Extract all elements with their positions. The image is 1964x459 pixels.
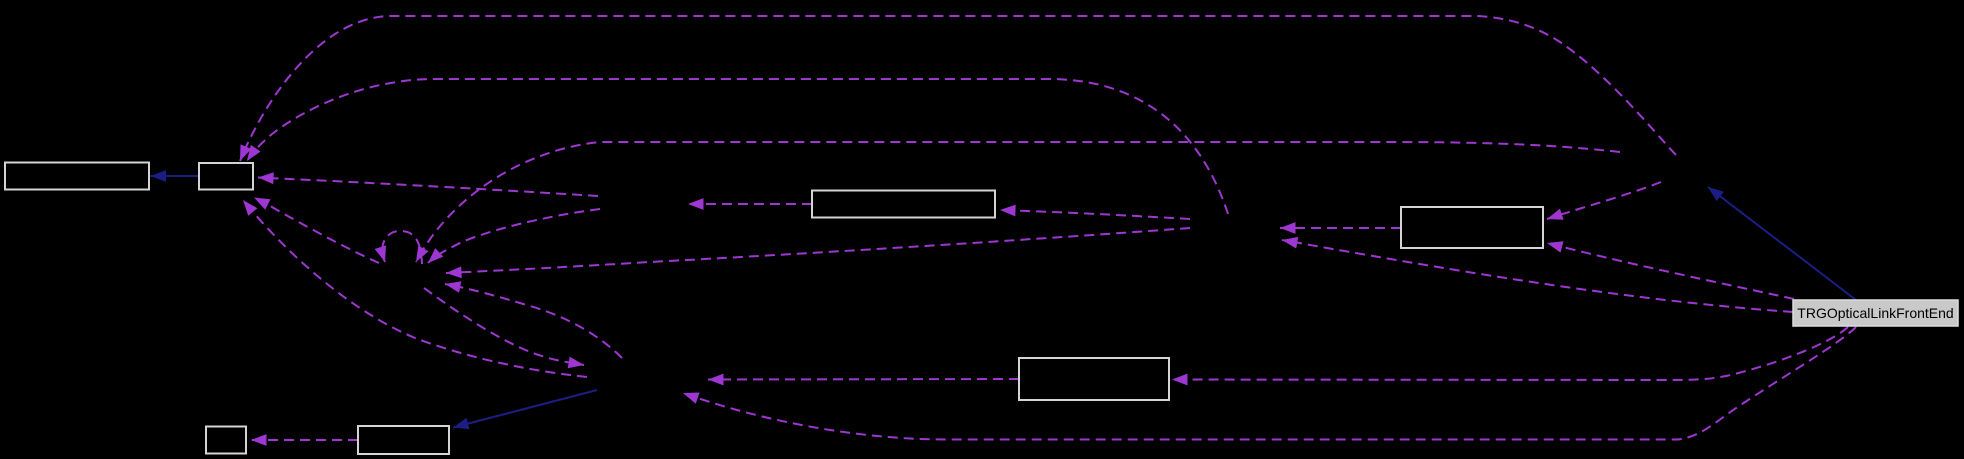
- edge N8->N4: [1547, 241, 1794, 299]
- inheritance N8->I3: [1708, 187, 1856, 300]
- edge I4->I1 long: [446, 228, 1190, 278]
- node box 2: [199, 163, 253, 190]
- edge I2->N2: [243, 200, 587, 377]
- edge I3->N4: [1547, 182, 1661, 220]
- edge I2->I1: [445, 281, 622, 358]
- node box 4: [1401, 207, 1543, 248]
- inheritance I2->N7: [453, 390, 597, 429]
- node box 3: [812, 191, 995, 218]
- edge N8->N5: [1172, 327, 1848, 385]
- edge I1 self loop: [375, 231, 422, 264]
- edge I3->I1 long line: [416, 142, 1620, 262]
- edge N7->N6: [251, 434, 358, 446]
- edge I1->N2: [254, 198, 379, 264]
- edge I5->I1: [428, 209, 600, 263]
- node box 1: [5, 163, 149, 190]
- edge I1->I2: [424, 288, 584, 368]
- edge I4->N2 mid arc: [247, 79, 1228, 214]
- svg-text:TRGOpticalLinkFrontEnd: TRGOpticalLinkFrontEnd: [1797, 305, 1953, 321]
- edge N8->I4: [1282, 237, 1793, 312]
- inheritance N2->N1: [151, 170, 200, 182]
- edge N8->I2 sweep: [683, 327, 1856, 440]
- node box 6: [206, 427, 246, 454]
- node box 7: [358, 426, 449, 454]
- edge N4->I4: [1280, 222, 1401, 234]
- node TRGOpticalLinkFrontEnd: [1793, 300, 1958, 326]
- edge I3->N2 top arc: [240, 16, 1676, 161]
- edge N5->I2: [708, 374, 1019, 386]
- edge N3->I5: [688, 198, 812, 210]
- node box 5: [1019, 358, 1169, 400]
- edge I4->N3: [1000, 205, 1190, 219]
- edge I5->N2: [258, 172, 598, 196]
